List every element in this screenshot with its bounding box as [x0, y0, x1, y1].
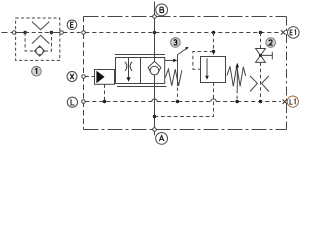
shut-off valve component 2: [256, 49, 266, 63]
wire: check valve right branch (dashed): [45, 33, 52, 52]
orifice below shut-off valve: [250, 76, 269, 92]
node: dot at shut-off valve center: [259, 54, 262, 57]
wire: check valve left branch (dashed): [25, 33, 34, 52]
wire: pilot wrap to left side of relief (dashed): [193, 52, 214, 70]
wire: L drain line with hops over A line and relief drain: [85, 101, 152, 103]
wire: inlet stub at left edge (dashed): [2, 32, 13, 34]
wire hop over relief drain: [211, 99, 216, 102]
spring of relief valve: [227, 66, 246, 86]
check valve of component 1 (diamond seat): [35, 46, 45, 56]
main valve bottom parallel line: [117, 86, 167, 88]
node: port circle A on boundary: [153, 128, 157, 132]
plug X at port L1: [283, 100, 287, 104]
wire: A line from valve bottom to boundary: [154, 84, 156, 130]
manifold boundary (dash-dot box): [84, 17, 287, 130]
wire: component 2 branch from E line (dashed): [260, 33, 262, 49]
node: junction dot component 2 on L: [259, 100, 262, 103]
node: port circle B on boundary: [153, 15, 157, 19]
handle of shut-off valve: [261, 52, 273, 60]
plug X at port E1: [281, 30, 285, 34]
node: junction dot right of orifice: [50, 31, 53, 34]
adjustment arrow through relief spring: [236, 66, 238, 90]
wire: relief return to A (dashed): [155, 83, 214, 117]
node: port circle L on boundary: [82, 100, 86, 104]
node: port circle E on manifold edge: [82, 31, 86, 35]
wire: pilot box drain down to L line (dashed): [104, 84, 106, 100]
node: junction dot spring drain on L: [176, 100, 179, 103]
wire: external B stub: [154, 2, 156, 15]
orifice (fixed restriction) of component 1: [32, 22, 49, 44]
port label E1: [288, 27, 300, 39]
node: junction dot component 2 branch: [259, 31, 262, 34]
item number 2: [266, 38, 276, 48]
port label E: [67, 20, 77, 30]
wire: right node to outlet circle: [51, 32, 59, 34]
wire: pilot supply line E-E1 (dashed): [85, 32, 281, 34]
throttle flow path with down arrow (left box): [128, 58, 130, 78]
node: port circle X on boundary: [82, 75, 86, 79]
pilot actuator box at valve left: [95, 70, 115, 85]
wire: A stub below boundary: [154, 131, 156, 135]
adjustment arrow (component 3): [177, 49, 186, 55]
wire: dashed X to pilot box: [85, 76, 94, 78]
node: junction dot on pilot: [212, 50, 215, 53]
relief valve flow arrow: [206, 58, 208, 77]
main valve body U1 (two position boxes): [116, 58, 165, 84]
wire: dashed through orifice: [25, 32, 51, 34]
node: junction dot relief spring drain on L: [235, 100, 238, 103]
item number 3: [171, 38, 181, 48]
check valve in right box: [154, 58, 156, 62]
wire: spring chamber rod down to L: [177, 55, 179, 86]
pilot arrow onto spring side: [165, 59, 174, 61]
spring of main valve: [165, 69, 182, 86]
item number 1: [32, 66, 42, 76]
wire: relief pilot from E line down to valve top (dashed): [213, 33, 215, 57]
component 1 boundary (dashed box): [16, 18, 60, 60]
node: junction dot pilot-box drain on L: [103, 100, 106, 103]
node: junction dot A / relief return: [153, 115, 156, 118]
port label A: [156, 133, 168, 145]
node: component 1 outlet port circle: [60, 31, 64, 35]
node: inlet port circle of component 1: [12, 31, 16, 35]
main valve top parallel line: [115, 54, 165, 56]
wire hop over A line: [152, 99, 157, 102]
node: junction dot left of orifice: [23, 31, 26, 34]
wire: below shut-off valve (dashed): [260, 62, 262, 100]
port label L: [67, 97, 77, 107]
relief valve body: [201, 57, 226, 83]
port label X: [67, 72, 77, 82]
port label L1: [287, 96, 298, 107]
wire: B line down to valve: [154, 18, 156, 57]
port label B: [156, 4, 168, 16]
node: junction dot B line / E line: [153, 31, 156, 34]
wire: relief spring chamber drain to L (dashed): [236, 90, 238, 100]
pilot pressure triangle: [96, 71, 104, 84]
wire: dashed from E outlet to manifold edge: [64, 32, 82, 34]
check valve ball of component 1: [36, 47, 43, 54]
wire: from inlet circle to left node: [16, 32, 25, 34]
node: junction dot pilot branch: [212, 31, 215, 34]
